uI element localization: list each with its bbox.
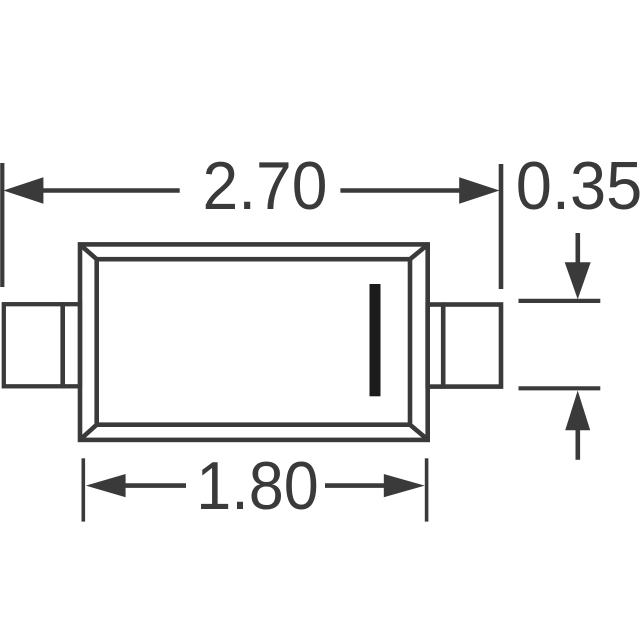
svg-text:2.70: 2.70 — [203, 148, 328, 224]
bevel top-right — [410, 246, 427, 260]
dim 1.80 left extension line — [82, 458, 86, 521]
dim 2.70 right arrowhead — [459, 177, 499, 204]
bevel bottom-right — [410, 425, 427, 439]
dim 1.80 dimension line right segment — [325, 483, 384, 488]
dim 0.35 upper arrow tail — [575, 233, 580, 266]
svg-text:1.80: 1.80 — [196, 448, 319, 524]
left lead fold line — [60, 302, 65, 388]
left lead outline — [4, 304, 80, 386]
cathode band — [370, 284, 381, 396]
dim 1.80 right arrowhead — [384, 474, 425, 497]
dim 1.80 right extension line — [425, 458, 429, 521]
dim 2.70 dimension line right segment — [340, 188, 465, 193]
body inner outline — [97, 259, 410, 425]
body outer outline — [80, 244, 428, 440]
dim 0.35 bottom extension segment — [519, 386, 601, 390]
dim 2.70 dimension line left segment — [30, 188, 180, 193]
dim 2.70 left extension line — [0, 163, 4, 287]
bevel bottom-left — [81, 425, 97, 439]
right lead outline — [428, 305, 501, 387]
dim 0.35 top extension segment — [519, 299, 601, 303]
dim 2.70 left arrowhead — [3, 177, 43, 203]
bevel top-left — [81, 246, 97, 260]
dim 1.80 dimension line left segment — [110, 483, 186, 488]
dim 0.35 up arrowhead — [565, 391, 590, 431]
right lead fold line — [441, 302, 446, 388]
dim 0.35 down arrowhead — [565, 262, 591, 299]
svg-text:0.35: 0.35 — [516, 148, 640, 224]
dim 0.35 lower arrow tail — [575, 426, 580, 460]
dim 1.80 left arrowhead — [86, 474, 126, 497]
dim 2.70 right extension line — [499, 164, 504, 289]
